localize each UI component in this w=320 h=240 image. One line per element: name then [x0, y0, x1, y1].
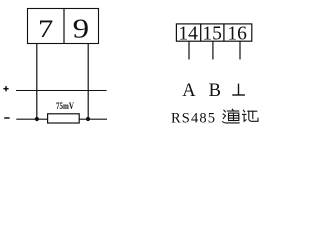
junction node at shunt right terminal: [86, 117, 90, 121]
svg-text:RS485: RS485: [171, 111, 215, 127]
divider between terminal 7 and terminal 9: [63, 9, 65, 44]
wire: positive supply line: [16, 90, 107, 92]
svg-text:B: B: [209, 81, 221, 101]
svg-text:15: 15: [202, 24, 222, 45]
wire stub from terminal 14 (RS485 A): [188, 42, 190, 60]
svg-text:7: 7: [38, 14, 54, 43]
caption character 通 (drawn): [223, 109, 240, 123]
ground symbol (up tack): [232, 84, 245, 95]
wire: negative supply line (left segment): [16, 118, 47, 120]
svg-text:14: 14: [178, 24, 198, 45]
caption character 讯 (drawn): [243, 110, 259, 121]
svg-text:A: A: [182, 81, 196, 101]
divider between terminal 15 and 16: [223, 24, 225, 41]
wire stub from terminal 16 (RS485 shield/ground): [239, 42, 241, 60]
wire stub from terminal 15 (RS485 B): [212, 42, 214, 60]
wire: negative supply line (right segment): [79, 118, 107, 120]
minus label: [4, 117, 9, 119]
shunt resistor 75mV: [48, 114, 80, 123]
svg-text:75mV: 75mV: [56, 102, 74, 112]
plus label: [3, 86, 8, 91]
svg-text:16: 16: [227, 24, 247, 45]
terminal block TB1 (meter mV input, terminals 7 and 9): [28, 9, 99, 44]
divider between terminal 14 and 15: [200, 24, 202, 41]
terminal block TB2 (RS485 terminals 14 15 16): [176, 24, 251, 41]
wire from terminal 9 to shunt right node: [87, 44, 89, 120]
svg-text:9: 9: [73, 14, 90, 44]
junction node at shunt left terminal: [35, 117, 39, 121]
wire from terminal 7 to shunt left node: [36, 44, 38, 120]
